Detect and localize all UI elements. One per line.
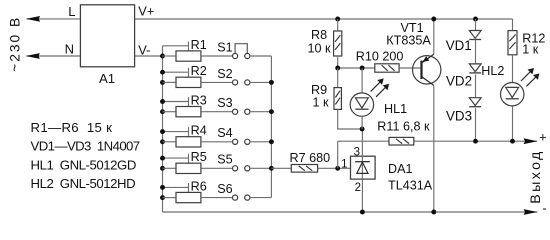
wire label tick R5 — [188, 154, 190, 163]
wire right bus to R7 — [271, 167, 291, 169]
junction HL1 top node — [360, 66, 365, 71]
wire V- from A1 to left bus — [135, 55, 163, 57]
wire R11/plus output line — [338, 140, 538, 142]
svg-text:1 к: 1 к — [522, 43, 539, 57]
svg-text:3: 3 — [354, 147, 360, 159]
junction R1 lead on left bus — [160, 54, 165, 59]
wire tap route R2 — [163, 71, 189, 73]
wire L line — [27, 18, 81, 20]
wire VT1 collector to bottom rail — [433, 85, 435, 212]
wire R1 to S1 — [201, 55, 232, 57]
wire S1 to right bus — [250, 55, 271, 57]
switch S3 — [233, 109, 238, 114]
svg-text:HL2 GNL-5012HD: HL2 GNL-5012HD — [31, 176, 136, 191]
wire R4 to S4 — [201, 141, 232, 143]
wire R2 to S2 — [201, 81, 232, 83]
resistor R1 — [176, 51, 201, 61]
svg-text:КТ835А: КТ835А — [386, 34, 431, 48]
svg-text:R1—R6 15 к: R1—R6 15 к — [31, 120, 113, 135]
svg-text:DA1: DA1 — [388, 162, 413, 176]
svg-text:Выход: Выход — [528, 149, 544, 203]
svg-text:HL1: HL1 — [384, 102, 407, 116]
resistor R7 — [291, 165, 317, 173]
wire R4 left lead — [163, 141, 177, 143]
wire R5 to S5 — [201, 167, 232, 169]
svg-text:VD3: VD3 — [446, 108, 472, 123]
junction S4 on right bus — [269, 139, 274, 144]
wire R9 bottom bend to HL1 line — [338, 109, 362, 129]
svg-text:HL2: HL2 — [481, 64, 504, 78]
wire HL2 to plus line — [512, 106, 514, 141]
svg-text:N: N — [65, 41, 74, 56]
junction S2 on right bus — [269, 80, 274, 85]
wire VD2 to VD3 — [475, 74, 477, 97]
arrow plus output — [524, 138, 538, 144]
wire S2 to right bus — [250, 81, 271, 83]
resistor R3 — [176, 107, 201, 117]
wire label tick R6 — [188, 183, 190, 192]
wire S3 to right bus — [250, 111, 271, 113]
svg-text:R1: R1 — [191, 38, 207, 52]
svg-text:V+: V+ — [138, 4, 154, 19]
junction HL1 bottom node — [360, 127, 365, 132]
ic DA1 TL431 box — [351, 156, 376, 179]
led HL1 — [350, 93, 373, 116]
svg-text:2: 2 — [355, 182, 361, 194]
switch S1 — [233, 53, 238, 58]
label Vyhod output — [528, 149, 544, 203]
svg-text:S4: S4 — [217, 126, 232, 140]
wire label tick R1 — [188, 41, 190, 50]
switch S5 — [233, 166, 238, 171]
junction VD3 on plus line — [473, 139, 478, 144]
wire R8 bottom to base row — [337, 56, 339, 68]
wire base row R8 to R10 — [338, 67, 375, 69]
junction tap R3 on left bus — [160, 99, 165, 104]
led HL2 — [501, 83, 524, 106]
svg-text:S2: S2 — [217, 67, 232, 81]
wire bottom rail — [163, 211, 538, 213]
wire R8 top lead — [337, 19, 339, 31]
wire S4 to right bus — [250, 141, 271, 143]
wire R6 to S6 — [201, 197, 232, 199]
svg-text:R11 6,8 к: R11 6,8 к — [377, 119, 430, 133]
svg-text:R5: R5 — [191, 150, 207, 164]
wire left bus vertical — [162, 46, 164, 212]
switch S6 — [233, 195, 238, 200]
wire tap route R5 — [163, 157, 189, 159]
junction R8 top on V+ rail — [335, 17, 340, 22]
svg-text:R8: R8 — [311, 28, 327, 42]
svg-text:V-: V- — [138, 42, 150, 57]
svg-text:R3: R3 — [191, 94, 207, 108]
resistor R11 — [389, 137, 414, 145]
resistor R4 — [176, 137, 201, 147]
resistor R12 — [508, 31, 517, 55]
junction R2 lead on left bus — [160, 80, 165, 85]
wire tap route R3 — [163, 101, 189, 103]
junction tap R4 on left bus — [160, 129, 165, 134]
svg-text:S6: S6 — [217, 182, 232, 196]
resistor R8 — [334, 31, 342, 56]
block A1 power module — [80, 5, 134, 67]
svg-text:VD2: VD2 — [446, 74, 472, 89]
switch S2 — [233, 80, 238, 85]
wire tap route R6 — [163, 186, 189, 188]
svg-text:1: 1 — [341, 158, 347, 170]
wire right switch bus vertical — [270, 56, 272, 198]
wire label tick R2 — [188, 68, 190, 77]
svg-text:A1: A1 — [99, 71, 115, 86]
svg-text:10 к: 10 к — [308, 42, 332, 56]
svg-text:S3: S3 — [217, 96, 232, 110]
junction R4 lead on left bus — [160, 139, 165, 144]
svg-text:R2: R2 — [191, 64, 207, 78]
junction node R7/DA1/R11 — [335, 166, 340, 171]
junction HL2 on plus line — [510, 139, 515, 144]
wire node up to R11 line — [337, 141, 339, 168]
junction VT1 collector on bottom rail — [431, 210, 436, 215]
arrow N input — [26, 53, 40, 59]
junction S5 on right bus — [269, 166, 274, 171]
label ~230 B mains — [7, 16, 22, 72]
wire VT1 emitter to V+ rail — [433, 19, 435, 54]
junction VT1 emitter on rail — [431, 17, 436, 22]
svg-text:R10 200: R10 200 — [356, 49, 404, 63]
diode VD2 — [469, 64, 481, 72]
wire R3 to S3 — [201, 111, 232, 113]
svg-text:L: L — [68, 4, 75, 19]
svg-text:HL1 GNL-5012GD: HL1 GNL-5012GD — [31, 157, 136, 172]
wire N line — [27, 55, 81, 57]
wire R9 top lead — [337, 68, 339, 88]
wire HL1 bottom lead — [361, 116, 363, 129]
junction S3 on right bus — [269, 109, 274, 114]
wire R10 to VT1 base — [399, 67, 421, 69]
svg-text:VD1—VD3 1N4007: VD1—VD3 1N4007 — [31, 139, 140, 154]
svg-text:~230 В: ~230 В — [7, 16, 22, 72]
junction R8/R9 node — [335, 66, 340, 71]
wire rail corner down to R12 — [512, 19, 514, 31]
svg-text:R6: R6 — [191, 179, 207, 193]
junction tap R5 on left bus — [160, 156, 165, 161]
wire VD3 to plus line — [475, 108, 477, 141]
wire R3 left lead — [163, 111, 177, 113]
wire V+ top rail — [135, 18, 513, 20]
wire VD1 to VD2 — [475, 40, 477, 64]
wire R1 left lead — [163, 55, 177, 57]
transistor VT1 KT835A — [413, 54, 441, 85]
wire S6 to right bus — [250, 197, 271, 199]
wire HL1 top lead — [361, 68, 363, 93]
junction R5 lead on left bus — [160, 166, 165, 171]
wire R6 left lead — [163, 197, 177, 199]
wire S5 to right bus — [250, 167, 271, 169]
switch S4 — [233, 139, 238, 144]
diode VD3 — [469, 98, 481, 106]
junction DA1 pin2 on bottom rail — [360, 210, 365, 215]
svg-text:VD1: VD1 — [446, 38, 472, 53]
resistor R10 — [375, 64, 399, 72]
wire label tick R3 — [188, 97, 190, 106]
junction tap R2 on left bus — [160, 70, 165, 75]
wire R7 to DA1 pin1 node — [318, 167, 351, 169]
svg-text:R4: R4 — [191, 124, 207, 138]
wire R2 left lead — [163, 81, 177, 83]
diode VD1 — [469, 31, 481, 39]
svg-text:+: + — [539, 129, 546, 144]
resistor R5 — [176, 163, 201, 173]
wire label tick R4 — [188, 127, 190, 136]
svg-text:TL431A: TL431A — [388, 179, 433, 193]
svg-text:R7 680: R7 680 — [290, 151, 331, 165]
svg-text:1 к: 1 к — [313, 96, 330, 110]
junction R3 lead on left bus — [160, 109, 165, 114]
wire tap route R4 — [163, 131, 189, 133]
junction VD1 top on rail — [473, 17, 478, 22]
wire R12 to HL2 — [512, 55, 514, 83]
resistor R2 — [176, 77, 201, 87]
arrow minus output — [524, 209, 538, 215]
svg-text:S1: S1 — [217, 40, 232, 54]
junction tap R6 on left bus — [160, 185, 165, 190]
resistor R9 — [334, 88, 341, 110]
DA1 internal zener symbol — [355, 161, 370, 163]
wire tap route R1 — [163, 45, 189, 47]
arrow L input — [26, 16, 40, 22]
wire R5 left lead — [163, 167, 177, 169]
wire VD chain top lead — [475, 19, 477, 31]
resistor R6 — [176, 192, 201, 202]
wire DA1 anode/pin2 vertical — [361, 162, 363, 212]
svg-text:S5: S5 — [217, 153, 232, 167]
junction R6 lead on left bus — [160, 195, 165, 200]
wire DA1 pin3 from node — [361, 129, 363, 162]
